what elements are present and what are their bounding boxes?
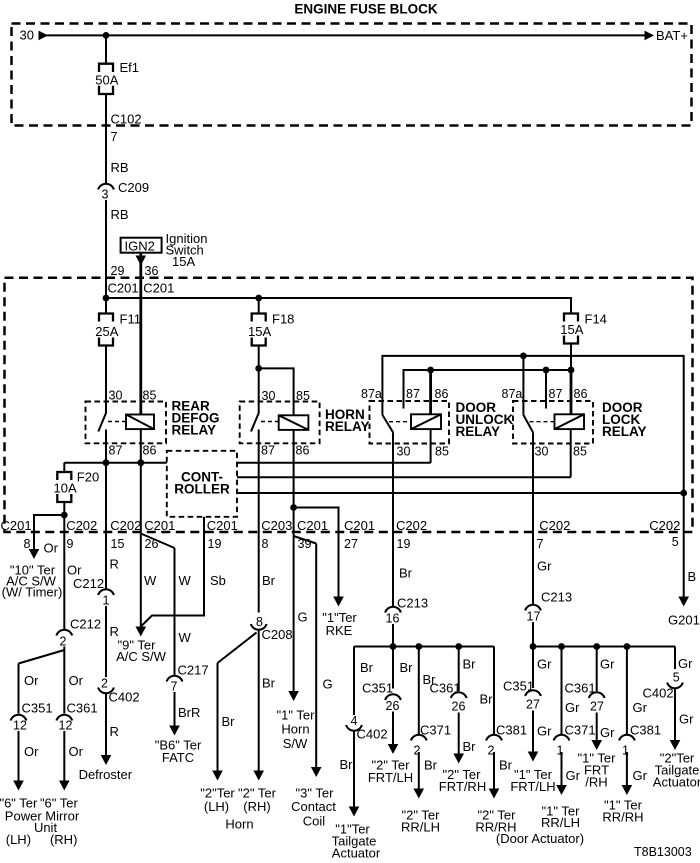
svg-text:26: 26 xyxy=(386,699,400,713)
rear defog mech link xyxy=(108,421,126,423)
svg-text:RELAY: RELAY xyxy=(172,423,217,438)
unlock switch blade xyxy=(382,415,393,432)
node horn label xyxy=(200,786,276,832)
svg-text:Or: Or xyxy=(69,673,84,688)
wire C213 to Gr bus xyxy=(532,622,534,647)
node 2 Ter RR/RH label xyxy=(475,808,516,835)
junction block dashed box xyxy=(5,278,693,532)
wire to FRT/RH arrow xyxy=(453,713,464,764)
svg-text:86: 86 xyxy=(296,444,310,458)
wire to 1 Ter RR/LH arrow xyxy=(556,752,567,795)
svg-text:87: 87 xyxy=(549,387,563,401)
wire to mirror RH arrow xyxy=(59,731,70,791)
wire to horn LH arrow xyxy=(212,663,223,781)
svg-text:C381: C381 xyxy=(630,723,661,738)
junction dot F18 tap xyxy=(255,295,262,302)
svg-text:86: 86 xyxy=(143,444,157,458)
svg-text:5: 5 xyxy=(672,535,679,549)
wire pin 8 Br horn xyxy=(258,532,260,613)
svg-text:C203: C203 xyxy=(261,518,292,533)
wire pin 9 Or xyxy=(63,532,65,630)
svg-text:Or: Or xyxy=(24,744,39,759)
svg-text:15A: 15A xyxy=(560,322,583,337)
junction dot defog 87 xyxy=(103,459,110,466)
svg-text:8: 8 xyxy=(262,537,269,551)
wire dot to Ef1 xyxy=(105,35,107,64)
engine fuse block dashed box xyxy=(12,24,692,126)
junction dot ground/controller xyxy=(680,490,687,497)
junction dot unlock 86 xyxy=(427,367,434,374)
connector C402 pin 4 xyxy=(346,714,387,742)
wire defog 86 to C201 pin 26 / A-C switch arrow xyxy=(136,463,147,637)
junction dot Ef1 tap xyxy=(103,32,110,39)
svg-text:Actuator: Actuator xyxy=(332,846,381,861)
wire to 2 Ter tailgate arrow xyxy=(670,689,681,751)
wire pin 26 diagonal xyxy=(141,534,175,549)
wire horn 86 to C201 pin 39 xyxy=(293,430,295,532)
wire controller to unlock 85 xyxy=(237,462,431,464)
wire C212 to C402 xyxy=(105,606,107,677)
junction dot Gr feed xyxy=(530,643,537,650)
node 2 Ter FRT/RH label xyxy=(439,767,486,794)
wire pin 7 Gr xyxy=(532,532,534,605)
ignition switch label xyxy=(166,231,208,269)
wire F20 to pins 8/9 xyxy=(63,502,65,532)
svg-text:Or: Or xyxy=(44,541,59,556)
svg-text:26: 26 xyxy=(452,700,466,714)
door unlock relay box xyxy=(370,401,450,444)
svg-text:Br: Br xyxy=(222,714,236,729)
svg-text:BAT+: BAT+ xyxy=(656,28,688,43)
controller box xyxy=(167,451,237,517)
wire to F20 xyxy=(63,463,65,472)
wire Br to tailgate C402 xyxy=(353,647,355,716)
svg-text:Br: Br xyxy=(480,692,494,707)
fuse F20 10A xyxy=(54,470,100,503)
svg-text:27: 27 xyxy=(344,537,358,551)
svg-text:RELAY: RELAY xyxy=(456,424,501,439)
svg-text:C212: C212 xyxy=(73,576,104,591)
door unlock relay label xyxy=(456,400,514,439)
svg-text:C201: C201 xyxy=(344,518,375,533)
node 1 Ter RR/LH label xyxy=(541,804,580,831)
node 3 Ter contact coil label xyxy=(291,786,336,829)
svg-text:W: W xyxy=(179,630,192,645)
connector C402 pin 5 xyxy=(643,671,683,701)
svg-text:C402: C402 xyxy=(109,690,140,705)
connector C217 pin 7 xyxy=(167,663,209,694)
door lock relay box xyxy=(513,401,593,444)
fuse Ef1 50A xyxy=(95,60,139,94)
svg-text:Br: Br xyxy=(463,739,477,754)
node power mirror unit label xyxy=(0,796,80,848)
horn mech link xyxy=(261,421,279,423)
svg-text:Actuator: Actuator xyxy=(653,775,700,790)
svg-text:85: 85 xyxy=(435,445,449,459)
svg-text:R: R xyxy=(110,557,119,572)
connector C381 pin 1 xyxy=(619,723,661,758)
svg-text:86: 86 xyxy=(574,387,588,401)
svg-text:1: 1 xyxy=(622,744,629,758)
horn switch blade xyxy=(251,413,259,432)
fuse F18 15A xyxy=(248,312,294,346)
svg-text:12: 12 xyxy=(59,719,73,733)
rear defog relay box xyxy=(86,402,167,444)
junction dot RKE branch xyxy=(290,504,297,511)
svg-text:C102: C102 xyxy=(111,112,142,127)
junction dot lock 87 xyxy=(543,367,550,374)
node 1 Ter RR/RH label xyxy=(602,798,643,825)
svg-text:C202: C202 xyxy=(66,518,97,533)
svg-text:15A: 15A xyxy=(248,324,271,339)
svg-text:RR/LH: RR/LH xyxy=(541,815,580,830)
svg-text:Gr: Gr xyxy=(600,657,615,672)
wire to RR/RH arrow xyxy=(489,752,500,799)
wire controller to lock 85 xyxy=(237,476,571,478)
svg-text:27: 27 xyxy=(526,698,540,712)
svg-text:Horn: Horn xyxy=(281,722,309,737)
wire F18 to horn pin 30 xyxy=(258,346,260,414)
connector C351 pin 27 xyxy=(503,679,541,712)
junction dot Br feed xyxy=(390,643,397,650)
lock switch blade xyxy=(523,415,533,432)
svg-text:"1" Ter: "1" Ter xyxy=(277,708,316,723)
wire F20/controller feed xyxy=(64,462,167,464)
svg-text:C202: C202 xyxy=(110,518,141,533)
wire Gr to C381 xyxy=(626,647,628,735)
svg-text:50A: 50A xyxy=(95,73,118,88)
svg-text:(RH): (RH) xyxy=(243,799,270,814)
svg-text:RKE: RKE xyxy=(326,623,353,638)
svg-text:Br: Br xyxy=(262,573,276,588)
svg-text:T8B13003: T8B13003 xyxy=(634,845,692,859)
junction dot Br FRT/RH tap xyxy=(455,643,462,650)
svg-text:1: 1 xyxy=(103,594,110,608)
svg-text:7: 7 xyxy=(111,130,118,144)
svg-text:Gr: Gr xyxy=(633,768,648,783)
svg-text:Gr: Gr xyxy=(633,700,648,715)
ignition switch IGN2 box xyxy=(121,238,162,254)
wire mirror RH branch xyxy=(63,647,65,714)
svg-text:BrR: BrR xyxy=(178,705,200,720)
controller label xyxy=(174,470,230,497)
junction dot Gr FRT/RH tap xyxy=(593,643,600,650)
svg-text:FATC: FATC xyxy=(162,750,194,765)
node 2 Ter tailgate actuator label xyxy=(653,751,700,790)
connector C351 pin 12 xyxy=(11,701,53,733)
wire pin 27 to RKE arrow xyxy=(333,532,344,607)
svg-text:Br: Br xyxy=(262,676,276,691)
svg-text:Gr: Gr xyxy=(565,700,580,715)
wire horn LH diagonal xyxy=(218,633,257,664)
svg-text:W: W xyxy=(179,573,192,588)
wire C209 to C201 pin 29 xyxy=(105,200,107,298)
wire Br to C361 xyxy=(458,647,460,692)
wire F11 to defog pin 30 xyxy=(105,346,107,414)
svg-text:C202: C202 xyxy=(539,518,570,533)
connector C208 pin 8 xyxy=(251,615,293,642)
connector C209 xyxy=(98,180,149,202)
node 1 Ter FRT/LH label xyxy=(510,767,555,794)
svg-text:G: G xyxy=(298,610,308,625)
node B6 Ter FATC label xyxy=(155,738,202,766)
svg-text:12: 12 xyxy=(13,719,27,733)
fuse F11 25A xyxy=(95,312,141,346)
svg-text:Gr: Gr xyxy=(537,724,552,739)
svg-text:(LH): (LH) xyxy=(204,799,229,814)
svg-text:C201: C201 xyxy=(144,518,175,533)
wire bus to F11 xyxy=(105,298,107,314)
svg-text:C202: C202 xyxy=(396,518,427,533)
wire Gr to C351 xyxy=(532,647,534,689)
svg-text:Gr: Gr xyxy=(566,768,581,783)
svg-text:Contact: Contact xyxy=(291,799,336,814)
svg-text:C213: C213 xyxy=(541,590,572,605)
svg-text:C201: C201 xyxy=(297,518,328,533)
wire controller pin 19 Sb xyxy=(203,517,205,532)
svg-text:C361: C361 xyxy=(67,701,98,716)
wire Gr bus xyxy=(533,646,675,648)
svg-text:8: 8 xyxy=(24,537,31,551)
wire Sb from controller xyxy=(141,532,204,626)
svg-text:Ef1: Ef1 xyxy=(120,60,140,75)
wire unlock 85 to controller xyxy=(430,429,432,463)
svg-text:Br: Br xyxy=(399,566,413,581)
connector C213 pin 16 xyxy=(385,596,428,626)
junction dot lock 87a xyxy=(520,353,527,360)
svg-text:C201: C201 xyxy=(143,281,174,296)
svg-text:/RH: /RH xyxy=(585,775,607,790)
svg-text:C213: C213 xyxy=(397,596,428,611)
svg-text:85: 85 xyxy=(143,389,157,403)
wire C213 to Br bus xyxy=(392,624,394,647)
wire Gr to C361 xyxy=(596,647,598,692)
junction dot horn coil tap xyxy=(255,365,262,372)
svg-text:Gr: Gr xyxy=(537,657,552,672)
svg-text:RB: RB xyxy=(111,207,129,222)
wire F14 to lock coil xyxy=(570,344,572,371)
svg-text:C351: C351 xyxy=(362,681,393,696)
wire lock 87 stub xyxy=(545,370,547,409)
svg-text:Coil: Coil xyxy=(303,814,326,829)
svg-text:Defroster: Defroster xyxy=(79,767,133,782)
wire 87a ground line xyxy=(382,356,683,597)
connector C361 pin 12 xyxy=(56,701,97,733)
connector C371 pin 1 xyxy=(554,723,596,758)
wire bus to F18 xyxy=(258,298,260,314)
wire Ef1 to C209 xyxy=(105,94,107,184)
svg-text:Sb: Sb xyxy=(210,573,226,588)
wire Br to C371 xyxy=(418,647,420,735)
svg-text:Gr: Gr xyxy=(679,712,694,727)
svg-text:C202: C202 xyxy=(649,518,680,533)
svg-text:RB: RB xyxy=(111,160,129,175)
svg-text:2: 2 xyxy=(101,677,108,691)
svg-text:15A: 15A xyxy=(172,254,195,269)
svg-text:Horn: Horn xyxy=(225,817,253,832)
svg-text:87a: 87a xyxy=(361,387,382,401)
svg-text:27: 27 xyxy=(590,700,604,714)
wire pin 8 arrow xyxy=(29,532,40,559)
svg-text:G201: G201 xyxy=(668,613,700,628)
svg-text:87a: 87a xyxy=(502,387,523,401)
svg-text:C402: C402 xyxy=(357,727,388,742)
svg-text:C402: C402 xyxy=(643,686,674,701)
wire IGN2 feed to defog coil xyxy=(139,253,142,415)
wire to 1 Ter FRT/RH arrow xyxy=(591,713,602,751)
svg-text:RELAY: RELAY xyxy=(325,419,370,434)
svg-text:F11: F11 xyxy=(120,312,141,327)
rear defog relay label xyxy=(172,399,220,438)
wire Gr to C371 xyxy=(561,647,563,735)
svg-text:FRT/RH: FRT/RH xyxy=(439,779,486,794)
connector C381 pin 2 xyxy=(486,723,527,758)
connector C212 pin 1 xyxy=(73,576,114,608)
wire Br to C381 xyxy=(493,647,495,735)
svg-text:87: 87 xyxy=(406,387,420,401)
svg-text:G: G xyxy=(323,677,333,692)
wire controller to ground bus xyxy=(237,492,684,494)
wire mirror LH diagonal xyxy=(19,650,65,664)
horn relay box xyxy=(240,402,320,444)
svg-text:Gr: Gr xyxy=(600,725,615,740)
svg-text:(W/ Timer): (W/ Timer) xyxy=(2,585,63,600)
svg-text:B: B xyxy=(688,569,697,584)
connector C371 pin 2 xyxy=(411,723,451,758)
svg-text:C351: C351 xyxy=(22,701,53,716)
unlock mech link xyxy=(389,421,411,423)
svg-text:5: 5 xyxy=(673,671,680,685)
svg-text:(LH): (LH) xyxy=(6,832,31,847)
junction dot F14 feed xyxy=(568,367,575,374)
wire to mirror LH arrow xyxy=(13,731,24,791)
fuse F14 15A xyxy=(560,312,607,344)
rear defog coil xyxy=(126,415,154,430)
svg-text:ENGINE FUSE BLOCK: ENGINE FUSE BLOCK xyxy=(294,2,438,17)
svg-text:30: 30 xyxy=(20,28,34,43)
svg-text:Br: Br xyxy=(340,757,354,772)
node 10 Ter A/C S/W label xyxy=(2,563,63,600)
svg-text:F18: F18 xyxy=(272,312,294,327)
wire branch to pin 8 xyxy=(34,515,64,532)
wire BrR to FATC arrow xyxy=(169,692,180,736)
svg-text:87: 87 xyxy=(261,444,275,458)
svg-text:19: 19 xyxy=(397,537,411,551)
connector C402 pin 2 xyxy=(98,677,139,705)
svg-text:Br: Br xyxy=(360,660,374,675)
svg-text:C201: C201 xyxy=(1,518,32,533)
svg-text:29: 29 xyxy=(111,264,125,278)
svg-text:C208: C208 xyxy=(262,627,293,642)
svg-text:C371: C371 xyxy=(420,723,451,738)
svg-text:FRT/LH: FRT/LH xyxy=(510,779,555,794)
wire to defroster arrow xyxy=(101,693,112,765)
wire ground arrowhead xyxy=(678,597,689,607)
horn coil xyxy=(279,415,309,430)
wire W to C217 xyxy=(174,548,176,676)
IGN2 feed arrowhead xyxy=(136,256,147,266)
wire contact coil diagonal xyxy=(294,536,317,544)
BAT+ arrowhead xyxy=(645,31,655,41)
junction dot F11 tap xyxy=(103,295,110,302)
horn relay label xyxy=(325,407,370,434)
junction dot Gr RR/LH tap xyxy=(558,643,565,650)
node 1 Ter RKE label xyxy=(322,610,357,638)
wire bus corner to F14 xyxy=(570,298,572,314)
svg-text:R: R xyxy=(110,724,119,739)
svg-text:RR/RH: RR/RH xyxy=(602,810,643,825)
wire Br bus xyxy=(354,646,494,648)
unlock coil xyxy=(411,414,441,429)
svg-text:C217: C217 xyxy=(178,663,209,678)
wire defog pin 87 xyxy=(105,430,107,463)
wire Gr to tailgate C402 xyxy=(674,647,676,670)
wire to RR/LH arrow xyxy=(414,752,425,799)
node 2 Ter FRT/LH label xyxy=(368,758,413,786)
svg-text:16: 16 xyxy=(386,612,400,626)
lock coil xyxy=(555,414,585,429)
node 2 Ter RR/LH label xyxy=(401,808,440,835)
svg-text:(Door Actuator): (Door Actuator) xyxy=(496,831,584,846)
svg-text:Br: Br xyxy=(400,660,414,675)
wire to 1 Ter FRT/LH arrow xyxy=(528,711,539,762)
wire to horn RH arrow xyxy=(253,631,264,781)
connector C351 pin 26 xyxy=(362,681,401,714)
svg-text:7: 7 xyxy=(537,537,544,551)
node 9 Ter A/C S/W label xyxy=(116,638,167,665)
wire unlock 30 to C202 pin 19 xyxy=(392,432,394,532)
svg-text:30: 30 xyxy=(397,445,411,459)
svg-text:C381: C381 xyxy=(496,723,527,738)
connector C361 pin 26 xyxy=(430,681,467,714)
wire defog pin 86 xyxy=(140,429,142,463)
svg-text:3: 3 xyxy=(102,188,109,202)
wire defog 87 to C202 pin 15 xyxy=(105,463,107,589)
wire Br to C351 xyxy=(392,647,394,689)
svg-text:85: 85 xyxy=(573,445,587,459)
junction dot Br RR/LH tap xyxy=(415,643,422,650)
svg-text:Or: Or xyxy=(69,744,84,759)
svg-text:RR/LH: RR/LH xyxy=(401,820,440,835)
svg-text:86: 86 xyxy=(435,387,449,401)
junction dot Gr RR/RH tap xyxy=(624,643,631,650)
svg-text:C212: C212 xyxy=(70,617,101,632)
svg-text:C201: C201 xyxy=(207,518,238,533)
svg-text:C201: C201 xyxy=(108,281,139,296)
lock mech link xyxy=(530,421,555,423)
svg-text:Br: Br xyxy=(424,758,438,773)
svg-text:15: 15 xyxy=(111,537,125,551)
rear defog switch blade xyxy=(98,413,106,432)
svg-text:17: 17 xyxy=(527,610,541,624)
svg-text:25A: 25A xyxy=(95,324,118,339)
wire BAT+ line xyxy=(46,34,645,36)
svg-text:7: 7 xyxy=(171,680,178,694)
svg-text:30: 30 xyxy=(109,389,123,403)
bus wire to fuses xyxy=(106,298,571,314)
svg-text:9: 9 xyxy=(67,537,74,551)
svg-text:IGN2: IGN2 xyxy=(125,238,155,253)
wire 30 feed arrowhead xyxy=(39,31,49,41)
svg-text:Br: Br xyxy=(463,657,477,672)
wire lock 85 to controller xyxy=(570,429,572,477)
svg-text:A/C S/W: A/C S/W xyxy=(116,649,167,664)
junction dot defog 86 xyxy=(137,459,144,466)
svg-text:10A: 10A xyxy=(54,481,77,496)
svg-text:ROLLER: ROLLER xyxy=(174,482,230,497)
svg-text:2: 2 xyxy=(60,635,67,649)
wire branch to horn pin 85 xyxy=(259,368,294,415)
